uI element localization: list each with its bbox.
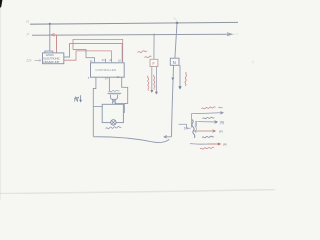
wire into alarm box right side [123, 104, 128, 113]
svg-text:1N: 1N [184, 127, 189, 131]
svg-text:(N): (N) [220, 120, 224, 124]
alarm box A1 [102, 104, 123, 122]
svg-text:41: 41 [90, 59, 93, 63]
wire F1 output right [155, 67, 157, 93]
wire controller pin14 to sounder [108, 77, 110, 91]
neutral box N1 [170, 58, 179, 65]
svg-text:(P): (P) [223, 142, 227, 146]
arrowhead P bus right end [227, 33, 232, 36]
node junction N/PSU [49, 23, 51, 25]
wire left loop to alarm box [93, 106, 102, 108]
red scribble text right of F1 wires [154, 75, 155, 90]
svg-text:14: 14 [105, 76, 108, 80]
arrow marker on long vertical [171, 78, 174, 81]
svg-text:20: 20 [102, 58, 105, 62]
paper bottom edge line [0, 190, 275, 194]
sounder LS1 top plate [107, 92, 121, 94]
wire long vertical turn left with arrowhead [164, 136, 172, 139]
svg-text:CONTROLLER: CONTROLLER [95, 68, 116, 72]
power supply PS1 box [43, 53, 64, 64]
terminal squiggle knot [192, 120, 195, 138]
row5 red arrow [209, 143, 220, 145]
branch row1 wire with arrowhead [196, 112, 224, 115]
arrowhead F1 right [155, 92, 158, 95]
row4 dark text brown [202, 136, 214, 138]
annotation scribble left of loop [74, 97, 79, 102]
red label 240VAC above F1 [138, 51, 152, 58]
wire P bus line [32, 34, 232, 35]
red text below row5 [200, 147, 214, 149]
wire controller pin5 down-left loop [93, 77, 96, 136]
wire N1 output right [179, 65, 181, 87]
wire controller pin16 route right [122, 77, 128, 103]
controller U1 box [91, 63, 125, 77]
svg-text:N: N [173, 60, 176, 65]
wire controller pin4 route [73, 50, 95, 63]
sounder LS1 label scribble [108, 90, 119, 92]
sounder LS1 crossed legs [112, 99, 115, 104]
svg-text:18: 18 [118, 59, 121, 63]
node junction N/neutral-box [176, 22, 179, 25]
wire F1 output left [151, 67, 153, 91]
svg-text:F: F [152, 61, 155, 66]
svg-text:(F): (F) [219, 129, 223, 133]
wire N bus to neutral box [175, 23, 177, 58]
wire bottom swoop to terminal [93, 137, 169, 143]
faint pencil mark above junction [174, 18, 178, 21]
row2 wire with arrowhead [199, 121, 218, 124]
red scribble text left of F1 wires [148, 76, 149, 91]
red scribble right of N1 wire [185, 72, 187, 86]
motor/bell symbol M1 [111, 120, 116, 125]
branch vertical to row1 [192, 114, 197, 128]
row5 underline [190, 143, 209, 145]
wire controller pin20 stub [105, 59, 107, 62]
branch vertical to row2 [196, 122, 199, 127]
svg-text:12v: 12v [26, 59, 32, 63]
wire PSU to controller pin18 (dark route) [64, 44, 122, 63]
arrowhead N1 right wire [178, 86, 181, 89]
svg-text:P: P [27, 32, 30, 37]
wire P bus to PSU (red vertical) [56, 35, 58, 53]
annotation down arrow [80, 95, 82, 100]
branch row3 red wire with arrowhead [194, 130, 216, 133]
row2 dark text [203, 117, 215, 119]
scan edge smudge left [0, 0, 1, 200]
svg-text:DRIVER UNIT: DRIVER UNIT [43, 60, 59, 64]
wire PSU red route to pin10 [64, 51, 112, 62]
red label above row1 [202, 107, 223, 109]
faint red smudge right side [251, 60, 254, 63]
wire long vertical from N box [172, 65, 174, 137]
node junction P/PSU crossing [49, 34, 51, 36]
scan black wedge top-left [0, 0, 2, 8]
red arrow on P line [52, 33, 57, 36]
svg-text:10: 10 [109, 58, 112, 62]
wire N bus line [30, 22, 238, 24]
terminal entry stub [179, 124, 191, 128]
fuse F1 box [150, 59, 158, 66]
wire red route top to pin18 [73, 39, 123, 62]
svg-text:16: 16 [116, 75, 119, 79]
wire P bus to fuse F1 [153, 34, 155, 60]
wire N bus to PSU (dark vertical) [49, 24, 51, 51]
arrow 12v pointing to box [35, 59, 42, 61]
arrowhead F1 left [150, 90, 153, 93]
wire sounder bottom to pin16 route [115, 102, 128, 104]
paper background [0, 0, 275, 200]
sounder LS1 cup [111, 95, 118, 99]
node junction P/F-box [153, 34, 155, 36]
alarm box label scribble [106, 127, 122, 129]
